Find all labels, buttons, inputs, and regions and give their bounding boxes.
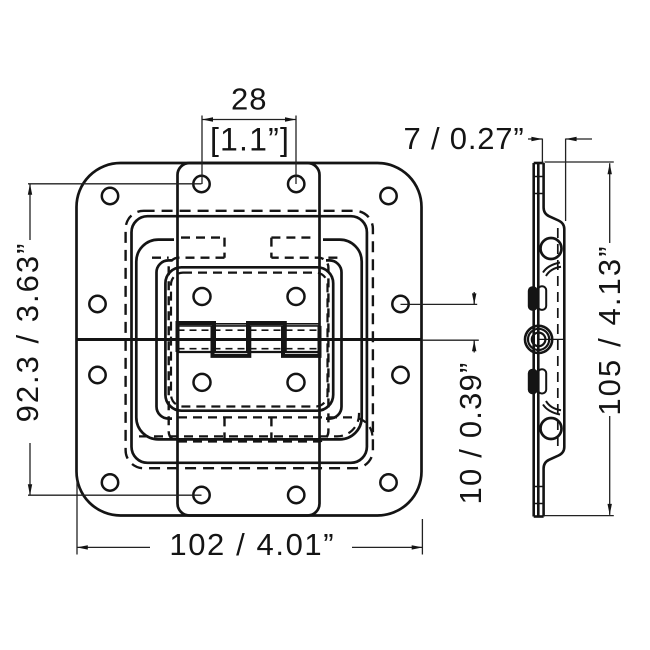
hinge pin hidden dashed lines [178,330,320,349]
hinge barrel thin top rail [178,323,320,325]
side plate back line [537,163,540,517]
hinge plate hole lower-left [194,374,211,391]
hidden tab verticals (bottom) [225,417,272,441]
dim 10 arrow stems [473,292,475,353]
dim 102 extension lines [77,480,422,555]
knuckle outline lower right [538,369,546,393]
dim 92.3 extension lines [28,184,202,495]
dim 7 leader right [566,138,592,140]
knuckle upper center [248,323,285,352]
arrowhead 102 left [77,545,88,549]
dish inner wall rect B (top edge broken at hinge strip) [136,240,361,440]
arrowhead 102 right [412,545,423,549]
arrowhead 28 left [202,117,213,121]
outer flange plate [77,163,422,516]
flange hole mid-right upper [392,296,408,312]
arrowhead 7 right (points left) [566,137,577,141]
arrowhead 92.3 bottom [28,484,32,495]
knuckle lower right [283,326,320,356]
arrowhead 10 top (points down) [472,293,476,304]
hinge leaf plate [165,267,333,410]
dim 7 leader left [528,138,542,140]
hidden flap end row extensions (top) [152,257,343,259]
dish seam hidden edge (bottom) [139,410,359,436]
dim 102 line right part [352,546,423,548]
flange hole top-left [102,188,118,204]
pin inner [532,333,546,347]
arrowhead 7 left (points right) [531,137,542,141]
svg-text:105 / 4.13”: 105 / 4.13” [592,244,627,415]
svg-text:10 / 0.39”: 10 / 0.39” [453,362,488,505]
flange hole mid-right lower [392,367,408,383]
svg-text:[1.1”]: [1.1”] [210,122,290,158]
flange hole bottom-left [102,474,118,490]
dish dashed outer rounded rect [126,211,373,468]
svg-text:7 / 0.27”: 7 / 0.27” [404,121,525,156]
pin outer [528,329,549,350]
knuckle outline upper right [538,286,546,310]
dish floor rect C (broken at hinge strip) left half [157,260,173,418]
strip hole top-left [193,176,209,192]
lid flap strip (upper leaf), full height [178,163,320,516]
dish wall profile [544,163,565,517]
side plate front line [532,163,535,517]
side plate bottom cap [534,515,544,518]
side corner tick marks [534,177,544,504]
dim 28 line [202,119,296,121]
dim 10 hole leader [401,303,478,305]
hinge barrel bottom rail [178,351,320,353]
hinge plate hole upper-left [194,288,211,305]
pin curl outer [525,326,552,353]
strip hole bottom-right [288,487,304,503]
knuckle lower left-center [213,326,250,356]
dish hidden inner wall dashed [557,228,559,446]
pin center line tick [539,338,565,340]
arrowhead 105 bottom [608,504,612,515]
dim 102 line left part [77,546,150,548]
rivet circle lower [541,418,562,439]
knuckle section lower (filled) [528,369,538,394]
dish wall jog lower [543,405,560,415]
side plate top cap [534,162,544,165]
knuckle section upper (filled) [528,286,538,310]
flange hole top-right [380,188,396,204]
dim 28 extension lines [202,116,296,185]
dim 7 extension lines [542,139,565,222]
rivet circle upper [541,238,562,259]
hinge center line across plate [77,338,422,341]
lower leaf hidden bottom edge [178,417,373,437]
dish wall jog upper [543,263,560,273]
flange hole mid-left upper [89,296,105,312]
strip hole top-right [288,176,304,192]
hinge plate hole lower-right [288,374,305,391]
hidden tab outline (top) [181,238,315,258]
flange hole bottom-right [380,474,396,490]
dish floor rect C right half [326,260,342,418]
dish rim rounded rect A [132,216,367,463]
lower knuckles top rail [178,325,320,327]
hinge leaf hidden inner dashed outline [171,273,328,407]
dim 105 line [609,163,611,515]
arrowhead 92.3 top [28,184,32,195]
hinge plate hole upper-right [288,288,305,305]
strip hole bottom-left [193,487,209,503]
hidden lower flap outline [169,258,329,442]
arrowhead 105 top [608,163,612,174]
arrowhead 28 right [285,117,296,121]
knuckle upper left [178,323,215,352]
svg-text:102 / 4.01”: 102 / 4.01” [169,527,335,562]
dim 10 centerline leader [422,339,479,341]
svg-text:92.3 / 3.63”: 92.3 / 3.63” [10,242,45,423]
dim 92.3 line [29,184,31,495]
svg-text:28: 28 [231,82,267,117]
flange hole mid-left lower [89,367,105,383]
arrowhead 10 bottom (points up) [472,340,476,351]
dim 105 extension lines [545,162,614,516]
